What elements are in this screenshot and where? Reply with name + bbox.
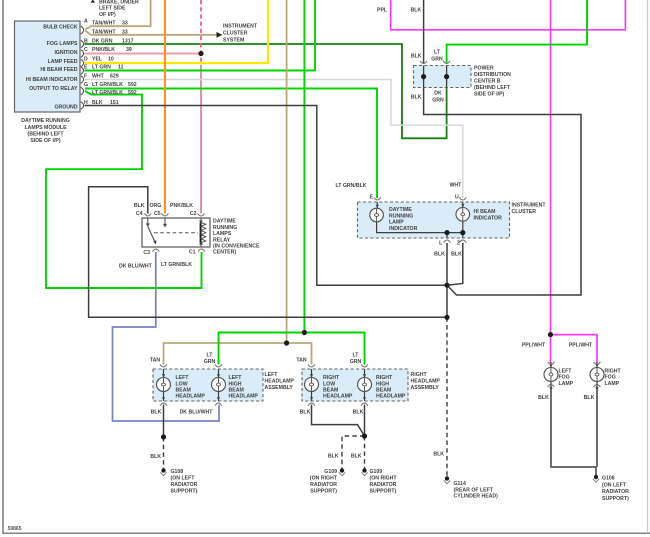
svg-text:LAMPS MODULE: LAMPS MODULE	[24, 125, 67, 131]
svg-text:POWER: POWER	[474, 65, 494, 71]
svg-text:LT: LT	[207, 352, 214, 358]
svg-text:RIGHT: RIGHT	[605, 368, 622, 374]
svg-text:BLK: BLK	[433, 452, 444, 458]
svg-text:RADIATOR: RADIATOR	[171, 482, 198, 488]
svg-text:TAN/WHT: TAN/WHT	[92, 20, 116, 26]
svg-text:CYLINDER HEAD): CYLINDER HEAD)	[454, 494, 499, 500]
svg-text:DK GRN: DK GRN	[92, 38, 113, 44]
svg-text:G: G	[84, 82, 88, 88]
svg-text:BLK: BLK	[451, 252, 462, 258]
svg-text:BLK: BLK	[134, 203, 145, 209]
svg-text:LT: LT	[353, 352, 360, 358]
svg-text:G109: G109	[324, 469, 337, 475]
svg-text:LAMP: LAMP	[389, 220, 404, 226]
svg-text:151: 151	[110, 100, 119, 106]
svg-text:E: E	[84, 65, 88, 71]
svg-text:INDICATOR: INDICATOR	[474, 216, 503, 222]
svg-text:INSTRUMENT: INSTRUMENT	[223, 23, 258, 29]
svg-text:CENTER B: CENTER B	[474, 78, 501, 84]
svg-text:BLK: BLK	[538, 395, 549, 401]
svg-text:RIGHT: RIGHT	[411, 372, 428, 378]
svg-text:PNK/BLK: PNK/BLK	[170, 203, 193, 209]
svg-text:HI BEAM INDICATOR: HI BEAM INDICATOR	[26, 77, 78, 83]
svg-text:LAMP: LAMP	[559, 381, 574, 387]
svg-text:LAMP: LAMP	[605, 381, 620, 387]
svg-text:BLK: BLK	[92, 100, 103, 106]
svg-text:G109: G109	[370, 469, 383, 475]
svg-text:LT GRN: LT GRN	[92, 65, 111, 71]
svg-text:HIGH: HIGH	[229, 381, 242, 387]
svg-text:BLK: BLK	[150, 454, 161, 460]
svg-text:PPL/WHT: PPL/WHT	[522, 343, 546, 349]
svg-text:DAYTIME RUNNING: DAYTIME RUNNING	[21, 118, 70, 124]
svg-text:SUPPORT): SUPPORT)	[171, 488, 198, 494]
svg-text:ASSEMBLY: ASSEMBLY	[265, 385, 294, 391]
svg-text:BLK: BLK	[411, 95, 422, 101]
svg-text:SUPPORT): SUPPORT)	[602, 496, 629, 502]
svg-text:C4: C4	[136, 211, 143, 217]
svg-text:LT GRN/BLK: LT GRN/BLK	[161, 262, 192, 268]
svg-text:RIGHT: RIGHT	[376, 375, 393, 381]
svg-text:SUPPORT): SUPPORT)	[310, 488, 337, 494]
svg-text:(IN CONVENIENCE: (IN CONVENIENCE	[213, 244, 260, 250]
svg-text:CLUSTER: CLUSTER	[512, 209, 537, 215]
svg-text:(ON RIGHT: (ON RIGHT	[370, 475, 398, 481]
svg-text:U: U	[455, 195, 459, 201]
svg-text:BLK: BLK	[300, 410, 311, 416]
svg-text:592: 592	[128, 82, 137, 88]
svg-text:GRN: GRN	[204, 359, 216, 365]
svg-text:BEAM: BEAM	[176, 388, 191, 394]
svg-text:(BEHIND LEFT: (BEHIND LEFT	[27, 132, 64, 138]
svg-text:592: 592	[128, 90, 137, 96]
svg-text:FOG: FOG	[559, 375, 570, 381]
svg-text:ASSEMBLY: ASSEMBLY	[411, 385, 440, 391]
svg-text:LOW: LOW	[323, 381, 335, 387]
svg-text:BLK: BLK	[411, 7, 422, 13]
svg-text:DK BLU/WHT: DK BLU/WHT	[180, 410, 214, 416]
svg-text:PPL/WHT: PPL/WHT	[569, 343, 593, 349]
svg-text:1317: 1317	[122, 38, 134, 44]
svg-text:SIDE OF I/P): SIDE OF I/P)	[30, 138, 61, 144]
svg-text:OUTPUT TO RELAY: OUTPUT TO RELAY	[29, 86, 78, 92]
svg-text:(ON LEFT: (ON LEFT	[602, 482, 627, 488]
svg-text:DAYTIME: DAYTIME	[389, 207, 412, 213]
svg-text:BLK: BLK	[411, 53, 422, 59]
svg-text:PPL: PPL	[377, 7, 388, 13]
svg-text:LT GRN/BLK: LT GRN/BLK	[92, 82, 123, 88]
svg-text:DISTRIBUTION: DISTRIBUTION	[474, 72, 511, 78]
svg-text:BRAKE, UNDER: BRAKE, UNDER	[99, 0, 139, 5]
svg-text:GRN: GRN	[350, 359, 362, 365]
svg-text:LAMP FEED: LAMP FEED	[48, 59, 78, 65]
svg-text:GRN: GRN	[431, 56, 443, 62]
svg-text:629: 629	[110, 73, 119, 79]
svg-text:D: D	[84, 56, 88, 62]
svg-text:BEAM: BEAM	[229, 388, 244, 394]
svg-text:PNK/BLK: PNK/BLK	[92, 47, 115, 53]
svg-text:C5: C5	[154, 211, 161, 217]
svg-text:BLK: BLK	[584, 395, 595, 401]
svg-text:F: F	[84, 73, 87, 79]
svg-text:A: A	[84, 19, 88, 25]
svg-text:SUPPORT): SUPPORT)	[370, 488, 397, 494]
svg-text:BULB CHECK: BULB CHECK	[43, 25, 78, 31]
svg-text:GRN: GRN	[432, 98, 444, 104]
svg-text:WHT: WHT	[450, 182, 463, 188]
svg-text:INSTRUMENT: INSTRUMENT	[512, 203, 547, 209]
svg-text:HI BEAM: HI BEAM	[474, 209, 496, 215]
svg-text:RADIATOR: RADIATOR	[602, 489, 629, 495]
svg-text:LEFT: LEFT	[559, 368, 573, 374]
svg-text:YEL: YEL	[92, 56, 103, 62]
svg-text:C: C	[84, 47, 88, 53]
svg-text:59865: 59865	[8, 526, 22, 532]
svg-text:(ON RIGHT: (ON RIGHT	[310, 475, 338, 481]
svg-text:OF I/P): OF I/P)	[99, 12, 116, 18]
svg-text:BEAM: BEAM	[323, 388, 338, 394]
svg-text:LEFT SIDE: LEFT SIDE	[99, 6, 126, 12]
svg-text:39: 39	[126, 47, 132, 53]
svg-text:(REAR OF LEFT: (REAR OF LEFT	[454, 487, 494, 493]
svg-text:HEADLAMP: HEADLAMP	[376, 394, 406, 400]
svg-text:G108: G108	[171, 469, 184, 475]
svg-text:RUNNING: RUNNING	[213, 225, 237, 231]
svg-text:HEADLAMP: HEADLAMP	[411, 379, 441, 385]
svg-text:TAN/WHT: TAN/WHT	[92, 30, 116, 36]
svg-text:C1: C1	[189, 250, 196, 256]
svg-text:SYSTEM: SYSTEM	[223, 37, 244, 43]
svg-text:G114: G114	[454, 481, 467, 487]
svg-text:H: H	[84, 100, 88, 106]
svg-text:BLK: BLK	[151, 410, 162, 416]
svg-text:HEADLAMP: HEADLAMP	[265, 379, 295, 385]
svg-text:RELAY: RELAY	[213, 237, 231, 243]
svg-text:G108: G108	[602, 476, 615, 482]
svg-text:RUNNING: RUNNING	[389, 213, 413, 219]
svg-text:TAN: TAN	[296, 357, 307, 363]
svg-text:LT: LT	[434, 49, 441, 55]
svg-text:LEFT: LEFT	[229, 375, 243, 381]
svg-text:FOG LAMPS: FOG LAMPS	[47, 41, 78, 47]
svg-text:CENTER): CENTER)	[213, 250, 236, 256]
svg-text:CLUSTER: CLUSTER	[223, 30, 248, 36]
svg-text:B: B	[84, 38, 88, 44]
svg-text:LAMPS: LAMPS	[213, 231, 232, 237]
svg-text:BLK: BLK	[351, 453, 362, 459]
svg-text:WHT: WHT	[92, 73, 105, 79]
svg-text:IGNITION: IGNITION	[54, 50, 77, 56]
svg-text:RIGHT: RIGHT	[323, 375, 340, 381]
svg-text:RADIATOR: RADIATOR	[370, 482, 397, 488]
svg-text:BLK: BLK	[328, 453, 339, 459]
svg-text:GROUND: GROUND	[54, 104, 77, 110]
svg-text:HEADLAMP: HEADLAMP	[176, 394, 206, 400]
svg-text:HEADLAMP: HEADLAMP	[323, 394, 353, 400]
svg-text:LEFT: LEFT	[265, 372, 279, 378]
svg-text:BEAM: BEAM	[376, 388, 391, 394]
svg-text:DK BLU/WHT: DK BLU/WHT	[119, 263, 153, 269]
svg-text:LT GRN/BLK: LT GRN/BLK	[92, 90, 123, 96]
svg-text:RADIATOR: RADIATOR	[310, 482, 337, 488]
svg-text:HIGH: HIGH	[376, 381, 389, 387]
svg-text:BLK: BLK	[434, 252, 445, 258]
svg-text:C2: C2	[190, 211, 197, 217]
svg-text:LEFT: LEFT	[176, 375, 190, 381]
svg-text:TAN: TAN	[150, 357, 161, 363]
svg-text:(ON LEFT: (ON LEFT	[171, 475, 196, 481]
svg-text:10: 10	[108, 56, 114, 62]
svg-text:BLK: BLK	[353, 410, 364, 416]
svg-text:FOG: FOG	[605, 375, 616, 381]
svg-text:LOW: LOW	[176, 381, 188, 387]
svg-text:DK: DK	[434, 91, 442, 97]
svg-text:HEADLAMP: HEADLAMP	[229, 394, 259, 400]
svg-text:ORG: ORG	[150, 203, 162, 209]
svg-text:INDICATOR: INDICATOR	[389, 226, 418, 232]
svg-text:DAYTIME: DAYTIME	[213, 219, 236, 225]
svg-text:HI BEAM FEED: HI BEAM FEED	[40, 67, 77, 73]
svg-text:SIDE OF I/P): SIDE OF I/P)	[474, 91, 505, 97]
svg-text:LT GRN/BLK: LT GRN/BLK	[336, 183, 367, 189]
svg-text:(BEHIND LEFT: (BEHIND LEFT	[474, 85, 511, 91]
svg-text:33: 33	[122, 20, 128, 26]
svg-text:C3: C3	[143, 250, 150, 256]
svg-text:E: E	[370, 195, 374, 201]
svg-text:33: 33	[122, 30, 128, 36]
svg-text:11: 11	[118, 65, 124, 71]
